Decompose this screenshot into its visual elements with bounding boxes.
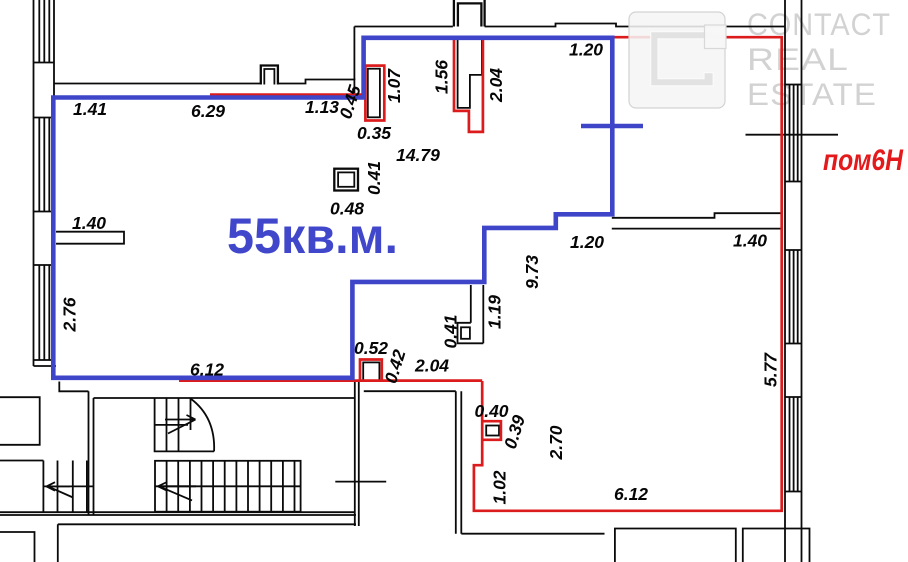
svg-text:1.07: 1.07 xyxy=(384,68,404,103)
blue dimension tick y126 xyxy=(581,124,643,129)
svg-text:1.41: 1.41 xyxy=(73,99,107,119)
inner black square of red 0.52 column xyxy=(363,362,379,381)
red main boundary pom6N xyxy=(474,37,782,511)
channel wall right line below blue corner xyxy=(482,285,484,343)
red outline around 0.40 column xyxy=(481,421,501,440)
landing edge line y460.5 xyxy=(0,460,43,462)
svg-text:пом6Н: пом6Н xyxy=(823,144,904,177)
red outline around 0.52 column xyxy=(360,360,382,382)
wall stub under blue corner xyxy=(59,382,88,392)
top interior wall line right of shaft with jog xyxy=(278,80,355,95)
upper stair flight midline xyxy=(155,424,188,426)
wall left cap y211.5 xyxy=(34,211,55,213)
svg-text:2.70: 2.70 xyxy=(546,425,566,460)
window right glazing lines upper xyxy=(790,85,798,182)
upper stair flight arrow xyxy=(165,415,196,434)
svg-text:55кв.м.: 55кв.м. xyxy=(227,208,398,264)
bottom room 1 outline xyxy=(615,529,736,562)
lower stair flight midline xyxy=(155,485,301,487)
small stair arrow xyxy=(47,482,74,497)
wall left cap y117.5 xyxy=(34,117,55,119)
svg-text:0.40: 0.40 xyxy=(474,401,508,421)
upper stair flight steps xyxy=(167,399,191,452)
wall left inner line xyxy=(53,0,55,366)
small stair outline xyxy=(42,461,44,513)
svg-text:1.20: 1.20 xyxy=(570,232,604,252)
bottom left wall corner xyxy=(0,532,35,562)
top shaft inner box xyxy=(458,3,482,26)
svg-text:REAL: REAL xyxy=(747,41,849,77)
channel box around small column xyxy=(458,323,484,344)
svg-text:2.76: 2.76 xyxy=(60,297,80,332)
lower room left wall x57.8 xyxy=(57,524,59,562)
mini shaft box outer on top-left wall xyxy=(261,66,278,85)
svg-text:6.12: 6.12 xyxy=(190,360,224,380)
lower stair flight arrow xyxy=(158,482,196,500)
svg-text:1.56: 1.56 xyxy=(432,60,452,94)
red shaft outline 1.07 xyxy=(365,66,384,121)
window left glazing lines middle xyxy=(39,118,49,212)
svg-text:2.04: 2.04 xyxy=(486,68,506,103)
svg-text:14.79: 14.79 xyxy=(396,145,440,165)
bottom wall y533.7 xyxy=(461,533,604,535)
wall right inner line x801.5 xyxy=(801,0,803,562)
dimension tick bottom y481.6 xyxy=(335,481,386,483)
right wall cap y84.5 xyxy=(785,84,802,86)
logo small square xyxy=(705,25,727,49)
inner black rect of red 1.07 shaft xyxy=(368,69,380,118)
stair hall top wall y398 xyxy=(94,397,355,399)
svg-text:1.20: 1.20 xyxy=(569,40,603,60)
lower room top wall y524.3 xyxy=(58,523,356,525)
stair hall left wall lines xyxy=(89,391,94,515)
stair hall bottom wall band xyxy=(0,512,356,515)
svg-text:1.40: 1.40 xyxy=(72,213,106,233)
right wall cap y181.5 xyxy=(785,181,802,183)
wall left end cap y366 xyxy=(34,365,57,367)
wall left outer line xyxy=(33,0,35,366)
top wall line segment b with jogs xyxy=(485,24,785,27)
svg-text:0.35: 0.35 xyxy=(357,123,391,143)
wall right outer line x785 xyxy=(784,0,786,562)
left room outline xyxy=(0,397,40,445)
column 0.48 inner square xyxy=(338,172,354,186)
wall left cap y62.5 xyxy=(34,62,55,64)
wall stub 1.40 left xyxy=(56,232,124,244)
logo tile background xyxy=(629,12,725,108)
corridor top wall y391.2 xyxy=(364,390,456,392)
lower stair flight steps xyxy=(167,461,295,512)
window left glazing lines top xyxy=(39,0,49,63)
corridor right wall lines xyxy=(456,391,462,534)
svg-text:ESTATE: ESTATE xyxy=(747,76,877,112)
small stair midline xyxy=(43,485,93,487)
right wall cap y250 xyxy=(785,249,802,251)
channel wall left line below blue corner xyxy=(470,285,472,323)
upper stair flight cut curve xyxy=(191,399,215,452)
red sliver above blue top wall xyxy=(210,93,363,96)
wall left cap y265 xyxy=(34,264,55,266)
svg-text:1.19: 1.19 xyxy=(485,295,505,329)
stair hall right wall lines x355-359 xyxy=(355,382,359,526)
mini shaft box inner xyxy=(264,69,274,85)
dimension tick right y134.7 xyxy=(746,134,839,136)
window right glazing lines lower xyxy=(790,397,798,492)
svg-text:0.52: 0.52 xyxy=(354,338,388,358)
window right glazing lines middle xyxy=(790,250,798,344)
right wall cap y397 xyxy=(785,396,802,398)
interior wall 1.40 right bottom line xyxy=(612,228,783,230)
svg-text:1.02: 1.02 xyxy=(490,470,510,504)
inner black rect of red 0.40 column xyxy=(486,426,499,436)
red bottom boundary line 55kv area xyxy=(179,379,482,382)
bottom room 2 outline xyxy=(743,529,810,562)
top interior wall line left of door xyxy=(54,83,261,85)
small stair steps xyxy=(58,461,87,513)
right wall cap y343.5 xyxy=(785,343,802,345)
lower stair flight outline xyxy=(155,461,301,512)
svg-text:2.04: 2.04 xyxy=(414,356,449,376)
svg-text:6.12: 6.12 xyxy=(614,484,648,504)
svg-text:9.73: 9.73 xyxy=(522,255,542,289)
window left glazing lines lower xyxy=(39,265,49,360)
column 0.48 outer square xyxy=(334,169,358,191)
wall left cap y360 xyxy=(34,359,55,361)
top wall line segment a xyxy=(354,26,453,28)
svg-text:5.77: 5.77 xyxy=(761,352,781,387)
inner black outline of red 1.56 shaft xyxy=(458,39,482,108)
logo C mark xyxy=(651,32,714,86)
svg-text:6.29: 6.29 xyxy=(191,101,225,121)
svg-text:1.40: 1.40 xyxy=(733,231,767,251)
red shaft outline 1.56 2.04 xyxy=(454,39,483,132)
svg-text:0.41: 0.41 xyxy=(441,314,461,348)
wall corner vertical x354 xyxy=(353,27,355,81)
top shaft outer verticals xyxy=(454,0,485,27)
right wall cap y491.5 xyxy=(785,491,802,493)
svg-text:0.41: 0.41 xyxy=(364,161,384,195)
upper stair flight outline xyxy=(155,399,215,452)
small column inner square 0.41 xyxy=(461,327,470,339)
blue boundary 55kv.m apartment xyxy=(53,38,612,378)
svg-text:1.13: 1.13 xyxy=(305,97,339,117)
interior wall 1.40 right top line xyxy=(612,213,783,218)
